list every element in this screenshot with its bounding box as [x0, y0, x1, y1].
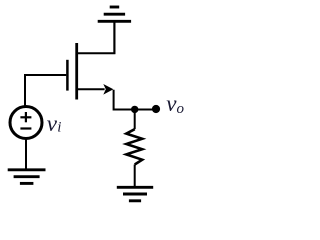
ground (top supply rail)	[98, 7, 131, 54]
svg-text:i: i	[57, 120, 61, 136]
wire drain to supply	[77, 22, 115, 53]
ground (below resistor)	[117, 187, 153, 201]
svg-text:o: o	[177, 101, 185, 117]
label v_o	[166, 91, 184, 117]
wire source bottom to ground	[25, 139, 27, 170]
wire source-follower output (source to node)	[114, 90, 156, 110]
resistor R	[126, 109, 142, 187]
label v_i	[47, 111, 62, 136]
wire gate lead	[25, 75, 66, 107]
ground (below source)	[8, 170, 46, 184]
svg-text:v: v	[47, 111, 58, 136]
node output terminal dot	[152, 105, 160, 113]
node junction dot	[131, 106, 138, 113]
transistor Q1 (NMOS)	[67, 43, 113, 100]
voltage source v_i	[10, 107, 42, 139]
